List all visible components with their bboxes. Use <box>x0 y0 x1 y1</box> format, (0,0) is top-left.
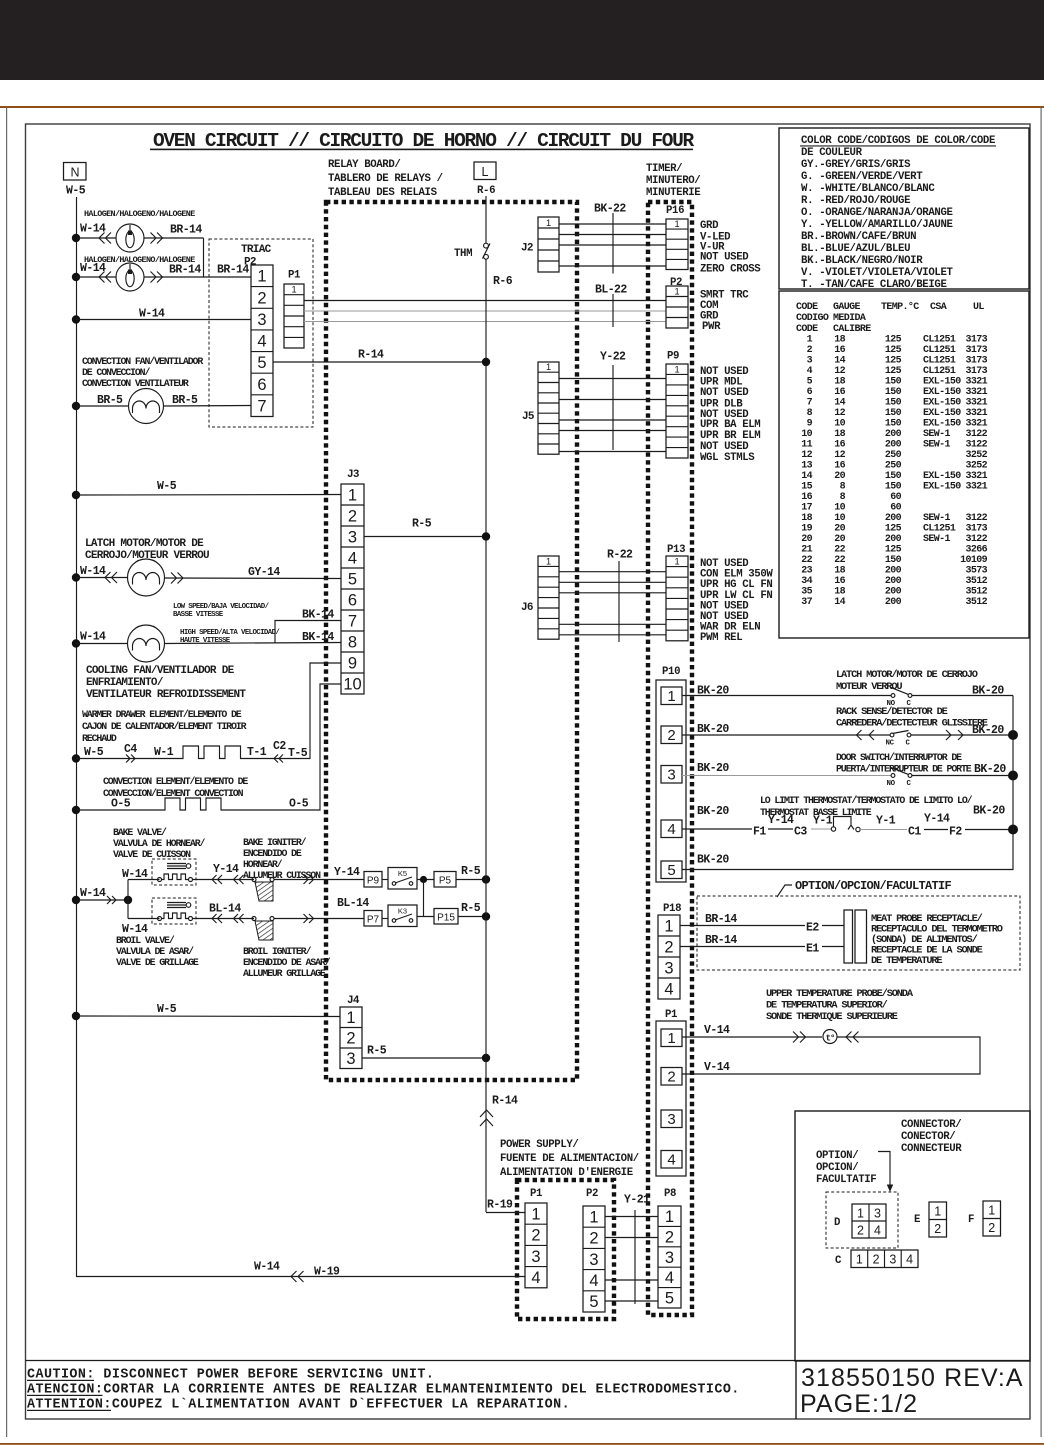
halogen lamp 2 <box>116 263 144 291</box>
relay board dashed border <box>326 202 577 1080</box>
svg-text:C3: C3 <box>794 826 807 839</box>
svg-text:CL1251: CL1251 <box>923 356 956 367</box>
svg-text:OPTION/OPCION/FACULTATIF: OPTION/OPCION/FACULTATIF <box>795 879 952 893</box>
latch motor switch label <box>836 669 978 693</box>
svg-text:CODE: CODE <box>796 324 818 335</box>
svg-text:2: 2 <box>807 345 813 356</box>
svg-text:2: 2 <box>873 1253 880 1267</box>
svg-text:CODE: CODE <box>796 302 818 313</box>
color code table box <box>779 128 1029 289</box>
svg-text:F: F <box>968 1214 974 1226</box>
svg-text:BR-14: BR-14 <box>705 913 737 926</box>
svg-text:10: 10 <box>834 503 845 514</box>
svg-text:CONVECTION ELEMENT/ELEMENTO DE: CONVECTION ELEMENT/ELEMENTO DE <box>103 776 248 787</box>
svg-text:20: 20 <box>834 534 845 545</box>
option label connector panel <box>816 1150 876 1186</box>
svg-text:2: 2 <box>589 1230 598 1248</box>
cooling fan low speed label <box>173 603 270 619</box>
svg-text:SEW-1: SEW-1 <box>923 534 951 545</box>
svg-text:12: 12 <box>834 366 845 377</box>
svg-text:1: 1 <box>257 268 266 286</box>
connector P2 (timer) <box>666 286 688 328</box>
connector panel box <box>795 1111 1030 1361</box>
svg-text:125: 125 <box>885 335 902 346</box>
P16 pin names <box>700 220 761 276</box>
upper temperature probe label <box>766 988 914 1023</box>
svg-text:J2: J2 <box>521 243 533 255</box>
svg-text:2: 2 <box>348 507 357 525</box>
door switch label <box>836 752 972 775</box>
svg-text:22: 22 <box>834 555 845 566</box>
svg-text:R-5: R-5 <box>461 865 481 878</box>
svg-text:11: 11 <box>801 440 812 451</box>
svg-text:L: L <box>482 165 489 179</box>
svg-text:4: 4 <box>807 366 813 377</box>
svg-text:WARMER DRAWER ELEMENT/ELEMENTO: WARMER DRAWER ELEMENT/ELEMENTO DE <box>82 709 242 720</box>
svg-text:2: 2 <box>664 938 673 956</box>
svg-text:5: 5 <box>807 377 813 388</box>
svg-text:MINUTERO/: MINUTERO/ <box>646 175 700 187</box>
svg-text:R-19: R-19 <box>487 1199 513 1212</box>
svg-text:16: 16 <box>834 576 845 587</box>
svg-text:3173: 3173 <box>965 524 987 535</box>
connector P1 (timer) <box>656 1021 686 1176</box>
svg-text:P7: P7 <box>367 915 380 926</box>
svg-text:O-5: O-5 <box>289 798 309 811</box>
svg-text:BROIL IGNITER/: BROIL IGNITER/ <box>243 946 311 957</box>
svg-text:16: 16 <box>801 492 812 503</box>
relay terminal P7 <box>364 911 382 927</box>
svg-text:BK-14: BK-14 <box>302 609 334 622</box>
svg-text:Y-1: Y-1 <box>876 815 896 828</box>
svg-text:18: 18 <box>801 513 812 524</box>
svg-text:200: 200 <box>885 534 902 545</box>
svg-text:2: 2 <box>857 1224 864 1238</box>
svg-text:1: 1 <box>807 335 813 346</box>
svg-text:10: 10 <box>834 419 845 430</box>
relay terminal P9 <box>364 872 382 888</box>
connector P9 (timer) <box>666 364 688 458</box>
svg-text:CONVECTION VENTILATEUR: CONVECTION VENTILATEUR <box>82 378 189 389</box>
svg-text:200: 200 <box>885 566 902 577</box>
svg-text:Y-14: Y-14 <box>768 814 794 827</box>
color code legend text <box>801 135 995 291</box>
svg-text:HORNEAR/: HORNEAR/ <box>243 859 283 870</box>
node R-5 junction <box>482 532 490 540</box>
bake igniter label <box>243 837 321 881</box>
svg-text:5: 5 <box>257 354 266 372</box>
svg-text:3: 3 <box>667 1111 675 1128</box>
svg-text:3: 3 <box>664 959 673 977</box>
wire neutral bus W-5 left <box>77 197 526 1277</box>
svg-text:Y-1: Y-1 <box>813 815 833 828</box>
svg-text:UPPER TEMPERATURE PROBE/SONDA: UPPER TEMPERATURE PROBE/SONDA <box>766 988 914 1000</box>
relay terminal P5 <box>434 872 456 888</box>
svg-text:4: 4 <box>589 1272 598 1290</box>
power supply dashed border <box>517 1180 614 1319</box>
svg-text:4: 4 <box>874 1224 881 1238</box>
svg-text:1: 1 <box>531 1205 540 1223</box>
svg-text:ALIMENTATION D'ENERGIE: ALIMENTATION D'ENERGIE <box>500 1167 633 1179</box>
node R bus broil junction <box>482 912 490 920</box>
warmer drawer element label <box>82 709 247 744</box>
svg-text:1: 1 <box>348 486 357 504</box>
svg-text:THM: THM <box>454 248 472 260</box>
svg-text:1: 1 <box>674 219 679 229</box>
node junction on neutral bus y=238 <box>72 234 80 242</box>
svg-text:60: 60 <box>890 492 901 503</box>
svg-text:3252: 3252 <box>965 461 987 472</box>
caution text block <box>27 1368 740 1413</box>
node right bus door junction <box>1008 771 1018 781</box>
svg-text:P9: P9 <box>667 351 679 363</box>
svg-text:W-1: W-1 <box>154 746 174 759</box>
svg-text:K5: K5 <box>398 869 407 878</box>
svg-text:TEMP.°C: TEMP.°C <box>881 301 919 313</box>
svg-text:BROIL VALVE/: BROIL VALVE/ <box>116 935 175 946</box>
svg-text:3173: 3173 <box>965 356 987 367</box>
connector P2 (triac board) <box>251 265 273 417</box>
svg-text:ENCENDIDO DE ASAR/: ENCENDIDO DE ASAR/ <box>243 957 331 968</box>
svg-text:P15: P15 <box>437 913 455 924</box>
svg-text:CARREDERA/DECTECTEUR GLISSIERE: CARREDERA/DECTECTEUR GLISSIERE <box>836 718 988 730</box>
svg-text:23: 23 <box>801 566 812 577</box>
svg-text:200: 200 <box>885 576 902 587</box>
svg-text:20: 20 <box>834 524 845 535</box>
svg-text:1: 1 <box>674 557 679 567</box>
wire R bus vertical <box>485 259 487 1212</box>
svg-text:UL: UL <box>973 302 984 313</box>
svg-text:GAUGE: GAUGE <box>833 302 861 313</box>
svg-text:W-14: W-14 <box>80 223 106 236</box>
svg-text:BK-20: BK-20 <box>697 762 729 775</box>
svg-text:ZERO CROSS: ZERO CROSS <box>700 264 761 276</box>
svg-text:E: E <box>914 1214 920 1226</box>
svg-text:150: 150 <box>885 471 902 482</box>
svg-text:T. -TAN/CAFE CLARO/BEIGE: T. -TAN/CAFE CLARO/BEIGE <box>801 279 947 291</box>
svg-text:V-14: V-14 <box>704 1024 730 1037</box>
svg-text:OPTION/: OPTION/ <box>816 1150 858 1162</box>
connector P10 (timer) <box>656 680 686 882</box>
node right bus rack junction <box>1008 730 1018 740</box>
node R bus bake junction <box>482 875 490 883</box>
connector J3 (relay board) <box>341 484 364 694</box>
svg-text:Y-14: Y-14 <box>334 866 360 879</box>
warmer drawer element <box>181 746 243 759</box>
svg-text:16: 16 <box>834 461 845 472</box>
meat probe receptacle label <box>871 913 1003 967</box>
svg-text:10: 10 <box>834 513 845 524</box>
wire BK-14 cooling fan high speed to J3 pin 8 <box>165 643 342 644</box>
svg-text:W-14: W-14 <box>80 631 106 644</box>
svg-text:R-6: R-6 <box>477 185 495 197</box>
svg-text:TABLERO DE RELAYS /: TABLERO DE RELAYS / <box>328 173 443 185</box>
svg-text:BR-14: BR-14 <box>169 264 201 277</box>
rack sense switch <box>890 733 894 737</box>
P9 pin names <box>700 366 760 464</box>
svg-text:18: 18 <box>834 377 845 388</box>
node junction on neutral bus y=319.5 <box>72 315 80 323</box>
svg-text:4: 4 <box>667 821 675 838</box>
left page trim line <box>6 107 7 1437</box>
svg-text:3173: 3173 <box>965 345 987 356</box>
convection fan motor <box>129 389 164 424</box>
svg-text:MINUTERIE: MINUTERIE <box>646 187 700 199</box>
svg-text:125: 125 <box>885 345 902 356</box>
svg-text:12: 12 <box>801 450 812 461</box>
right page trim line <box>1041 107 1042 1437</box>
svg-text:W-5: W-5 <box>157 1003 177 1016</box>
svg-text:150: 150 <box>885 419 902 430</box>
svg-text:BR-14: BR-14 <box>170 224 202 237</box>
svg-text:NOT USED: NOT USED <box>700 252 748 264</box>
halogen lamp 1 <box>116 224 144 252</box>
svg-text:1: 1 <box>546 556 551 566</box>
svg-text:150: 150 <box>885 377 902 388</box>
svg-text:K3: K3 <box>398 907 407 916</box>
svg-text:R-14: R-14 <box>358 349 384 362</box>
lo limit thermostat <box>831 827 835 831</box>
wire BR-14 halogen lamps to TRIAC P2 pin 1 <box>144 264 251 283</box>
svg-text:GY-14: GY-14 <box>248 566 280 579</box>
svg-text:ENCENDIDO DE: ENCENDIDO DE <box>243 848 302 859</box>
svg-text:22: 22 <box>834 545 845 556</box>
svg-text:8: 8 <box>807 408 813 419</box>
svg-text:9: 9 <box>807 419 813 430</box>
svg-text:3321: 3321 <box>965 482 987 493</box>
svg-text:BL-14: BL-14 <box>209 903 241 916</box>
svg-text:DOOR SWITCH/INTERRUPTOR DE: DOOR SWITCH/INTERRUPTOR DE <box>836 752 962 763</box>
svg-text:LOW SPEED/BAJA VELOCIDAD/: LOW SPEED/BAJA VELOCIDAD/ <box>173 603 270 611</box>
svg-text:D: D <box>834 1217 840 1229</box>
bake valve label <box>113 827 206 860</box>
svg-text:BK-20: BK-20 <box>697 805 729 818</box>
svg-text:13: 13 <box>801 461 812 472</box>
svg-text:1: 1 <box>291 285 296 295</box>
bottom orange rule <box>0 1443 1044 1445</box>
svg-text:250: 250 <box>885 450 902 461</box>
svg-text:BK-20: BK-20 <box>974 763 1006 776</box>
svg-text:R-14: R-14 <box>492 1095 518 1108</box>
svg-text:10: 10 <box>801 429 812 440</box>
svg-text:3: 3 <box>257 311 266 329</box>
svg-text:SEW-1: SEW-1 <box>923 429 951 440</box>
svg-text:VENTILATEUR REFROIDISSEMENT: VENTILATEUR REFROIDISSEMENT <box>86 689 246 701</box>
convection fan label <box>82 356 203 389</box>
svg-text:4: 4 <box>665 1269 674 1287</box>
svg-text:19: 19 <box>801 524 812 535</box>
svg-text:ENFRIAMIENTO/: ENFRIAMIENTO/ <box>86 677 164 689</box>
option leader arrow <box>878 1152 890 1187</box>
svg-text:250: 250 <box>885 461 902 472</box>
svg-text:FUENTE DE ALIMENTACION/: FUENTE DE ALIMENTACION/ <box>500 1153 639 1165</box>
svg-text:1: 1 <box>667 688 675 705</box>
svg-text:J6: J6 <box>521 602 533 614</box>
svg-text:4: 4 <box>667 1152 675 1169</box>
connector P18 (timer) <box>658 915 680 999</box>
svg-text:CONVECTION FAN/VENTILADOR: CONVECTION FAN/VENTILADOR <box>82 356 203 367</box>
svg-text:OPCION/: OPCION/ <box>816 1162 858 1174</box>
svg-text:7: 7 <box>348 612 357 630</box>
node junction on neutral bus y=1016 <box>72 1012 80 1020</box>
svg-text:R-22: R-22 <box>607 549 633 562</box>
svg-text:20: 20 <box>801 534 812 545</box>
relay K3 <box>382 905 434 927</box>
svg-text:ALLUMEUR GRILLAGE: ALLUMEUR GRILLAGE <box>243 968 326 979</box>
svg-text:PAGE:1/2: PAGE:1/2 <box>800 1390 918 1418</box>
node right bus thermostat junction <box>1008 825 1018 835</box>
svg-text:C1: C1 <box>908 826 921 839</box>
svg-text:J4: J4 <box>347 995 360 1007</box>
svg-text:5: 5 <box>348 570 357 588</box>
connector P1 (triac board) <box>284 284 304 348</box>
svg-text:3266: 3266 <box>965 545 987 556</box>
relay board label <box>328 159 443 199</box>
svg-text:5: 5 <box>589 1293 598 1311</box>
svg-text:3: 3 <box>667 767 675 784</box>
svg-text:MEDIDA: MEDIDA <box>833 313 866 324</box>
svg-text:150: 150 <box>885 482 902 493</box>
wire P1 pin4 to timer P2 PWR <box>304 321 666 323</box>
svg-text:125: 125 <box>885 356 902 367</box>
svg-text:EXL-150: EXL-150 <box>923 482 961 493</box>
upper temperature probe thermistor <box>823 1030 837 1044</box>
svg-text:BAKE IGNITER/: BAKE IGNITER/ <box>243 837 307 848</box>
svg-text:Y-22: Y-22 <box>600 351 626 364</box>
svg-text:1: 1 <box>988 1204 995 1218</box>
svg-text:125: 125 <box>885 366 902 377</box>
svg-text:12: 12 <box>834 408 845 419</box>
svg-text:7: 7 <box>257 398 266 416</box>
connector P1 (power supply) <box>525 1203 547 1288</box>
svg-text:1: 1 <box>856 1253 863 1267</box>
svg-text:C2: C2 <box>273 740 286 753</box>
svg-text:16: 16 <box>834 345 845 356</box>
svg-text:4: 4 <box>531 1269 540 1287</box>
connector panel title <box>901 1119 962 1155</box>
svg-text:1: 1 <box>674 364 679 374</box>
wire P1 pin2 to timer P2 COM <box>304 300 666 302</box>
svg-text:3321: 3321 <box>965 398 987 409</box>
svg-text:VALVE DE GRILLAGE: VALVE DE GRILLAGE <box>116 957 199 968</box>
part number box divider <box>795 1361 797 1420</box>
svg-text:NC: NC <box>886 740 895 748</box>
svg-text:W-5: W-5 <box>66 185 86 198</box>
svg-text:4: 4 <box>664 980 673 998</box>
node valve tee junction <box>124 896 132 904</box>
svg-text:318550150 REV:A: 318550150 REV:A <box>801 1364 1024 1392</box>
svg-text:BK-14: BK-14 <box>302 631 334 644</box>
svg-text:F2: F2 <box>949 826 962 839</box>
node R bus J4 junction <box>482 1054 490 1062</box>
svg-text:BASSE VITESSE: BASSE VITESSE <box>173 611 224 619</box>
svg-text:2: 2 <box>934 1222 941 1236</box>
svg-text:P1: P1 <box>665 1009 677 1021</box>
svg-text:W. -WHITE/BLANCO/BLANC: W. -WHITE/BLANCO/BLANC <box>801 183 935 195</box>
svg-text:1: 1 <box>665 1208 674 1226</box>
node junction on neutral bus y=758.5 <box>72 754 80 762</box>
svg-text:15: 15 <box>801 482 812 493</box>
svg-text:HALOGEN/HALOGENO/HALOGENE: HALOGEN/HALOGENO/HALOGENE <box>84 209 195 219</box>
svg-text:VALVULA DE HORNEAR/: VALVULA DE HORNEAR/ <box>113 838 206 849</box>
svg-text:FACULTATIF: FACULTATIF <box>816 1174 876 1186</box>
svg-text:EXL-150: EXL-150 <box>923 377 961 388</box>
svg-text:CONNECTEUR: CONNECTEUR <box>901 1143 962 1155</box>
connector J2 (relay board) <box>538 217 559 272</box>
svg-text:2: 2 <box>988 1221 995 1235</box>
svg-text:3512: 3512 <box>965 576 987 587</box>
svg-text:P10: P10 <box>662 666 680 678</box>
svg-text:3122: 3122 <box>965 429 987 440</box>
svg-text:DE TEMPERATURE: DE TEMPERATURE <box>871 955 942 967</box>
svg-text:CL1251: CL1251 <box>923 524 956 535</box>
svg-text:EXL-150: EXL-150 <box>923 408 961 419</box>
latch motor label <box>85 538 209 562</box>
wire gauge table text <box>796 301 988 608</box>
svg-text:P16: P16 <box>666 205 684 217</box>
svg-text:3321: 3321 <box>965 387 987 398</box>
P2 pin names <box>700 290 749 334</box>
svg-text:Y-14: Y-14 <box>213 863 239 876</box>
svg-text:18: 18 <box>834 429 845 440</box>
svg-text:P13: P13 <box>667 544 685 556</box>
svg-text:COLOR CODE/CODIGOS DE COLOR/CO: COLOR CODE/CODIGOS DE COLOR/CODE <box>801 135 995 147</box>
convection element label <box>103 776 248 799</box>
bake valve solenoid <box>152 859 196 885</box>
svg-text:BL-14: BL-14 <box>337 897 369 910</box>
broil valve label <box>116 935 199 968</box>
svg-text:BR-14: BR-14 <box>705 934 737 947</box>
svg-text:C4: C4 <box>124 743 137 756</box>
svg-text:2: 2 <box>665 1228 674 1246</box>
svg-text:8: 8 <box>348 633 357 651</box>
node K5/K3 tie <box>420 876 427 883</box>
svg-text:2: 2 <box>667 1069 675 1086</box>
svg-text:SEW-1: SEW-1 <box>923 513 951 524</box>
wire Y-1 C1 Y-14 F2 BK-20 thermostat to right bus <box>860 829 907 831</box>
wires J5 to P9 <box>559 379 666 452</box>
svg-text:10109: 10109 <box>960 555 988 566</box>
svg-text:T-1: T-1 <box>247 746 267 759</box>
svg-text:1: 1 <box>546 362 551 372</box>
wire Y-14 bake igniter to relay P9 <box>274 879 364 881</box>
svg-text:14: 14 <box>834 398 845 409</box>
svg-text:RACK SENSE/DETECTOR DE: RACK SENSE/DETECTOR DE <box>836 706 948 718</box>
svg-text:3: 3 <box>874 1207 881 1221</box>
svg-text:37: 37 <box>801 597 812 608</box>
svg-text:3512: 3512 <box>965 587 987 598</box>
option meat probe dashed box <box>697 896 1020 970</box>
svg-text:Y. -YELLOW/AMARILLO/JAUNE: Y. -YELLOW/AMARILLO/JAUNE <box>801 219 953 231</box>
svg-text:1: 1 <box>934 1205 941 1219</box>
svg-text:GRD: GRD <box>700 220 718 232</box>
svg-text:9: 9 <box>348 654 357 672</box>
svg-text:CL1251: CL1251 <box>923 345 956 356</box>
svg-text:N: N <box>70 166 79 180</box>
svg-text:BK-20: BK-20 <box>697 854 729 867</box>
wire gauge table box <box>779 291 1029 638</box>
svg-text:3173: 3173 <box>965 335 987 346</box>
P13 pin names <box>700 558 773 644</box>
svg-text:CL1251: CL1251 <box>923 366 956 377</box>
svg-text:CAJON DE CALENTADOR/ELEMENT TI: CAJON DE CALENTADOR/ELEMENT TIROIR <box>82 721 247 732</box>
svg-text:DE CONVECCION/: DE CONVECCION/ <box>82 367 150 378</box>
wire GY-14 latch motor to J3 pin 5 <box>165 577 342 580</box>
cooling fan label <box>86 665 246 701</box>
latch motor <box>128 559 165 596</box>
svg-text:W-14: W-14 <box>80 565 106 578</box>
svg-text:P8: P8 <box>664 1188 676 1200</box>
